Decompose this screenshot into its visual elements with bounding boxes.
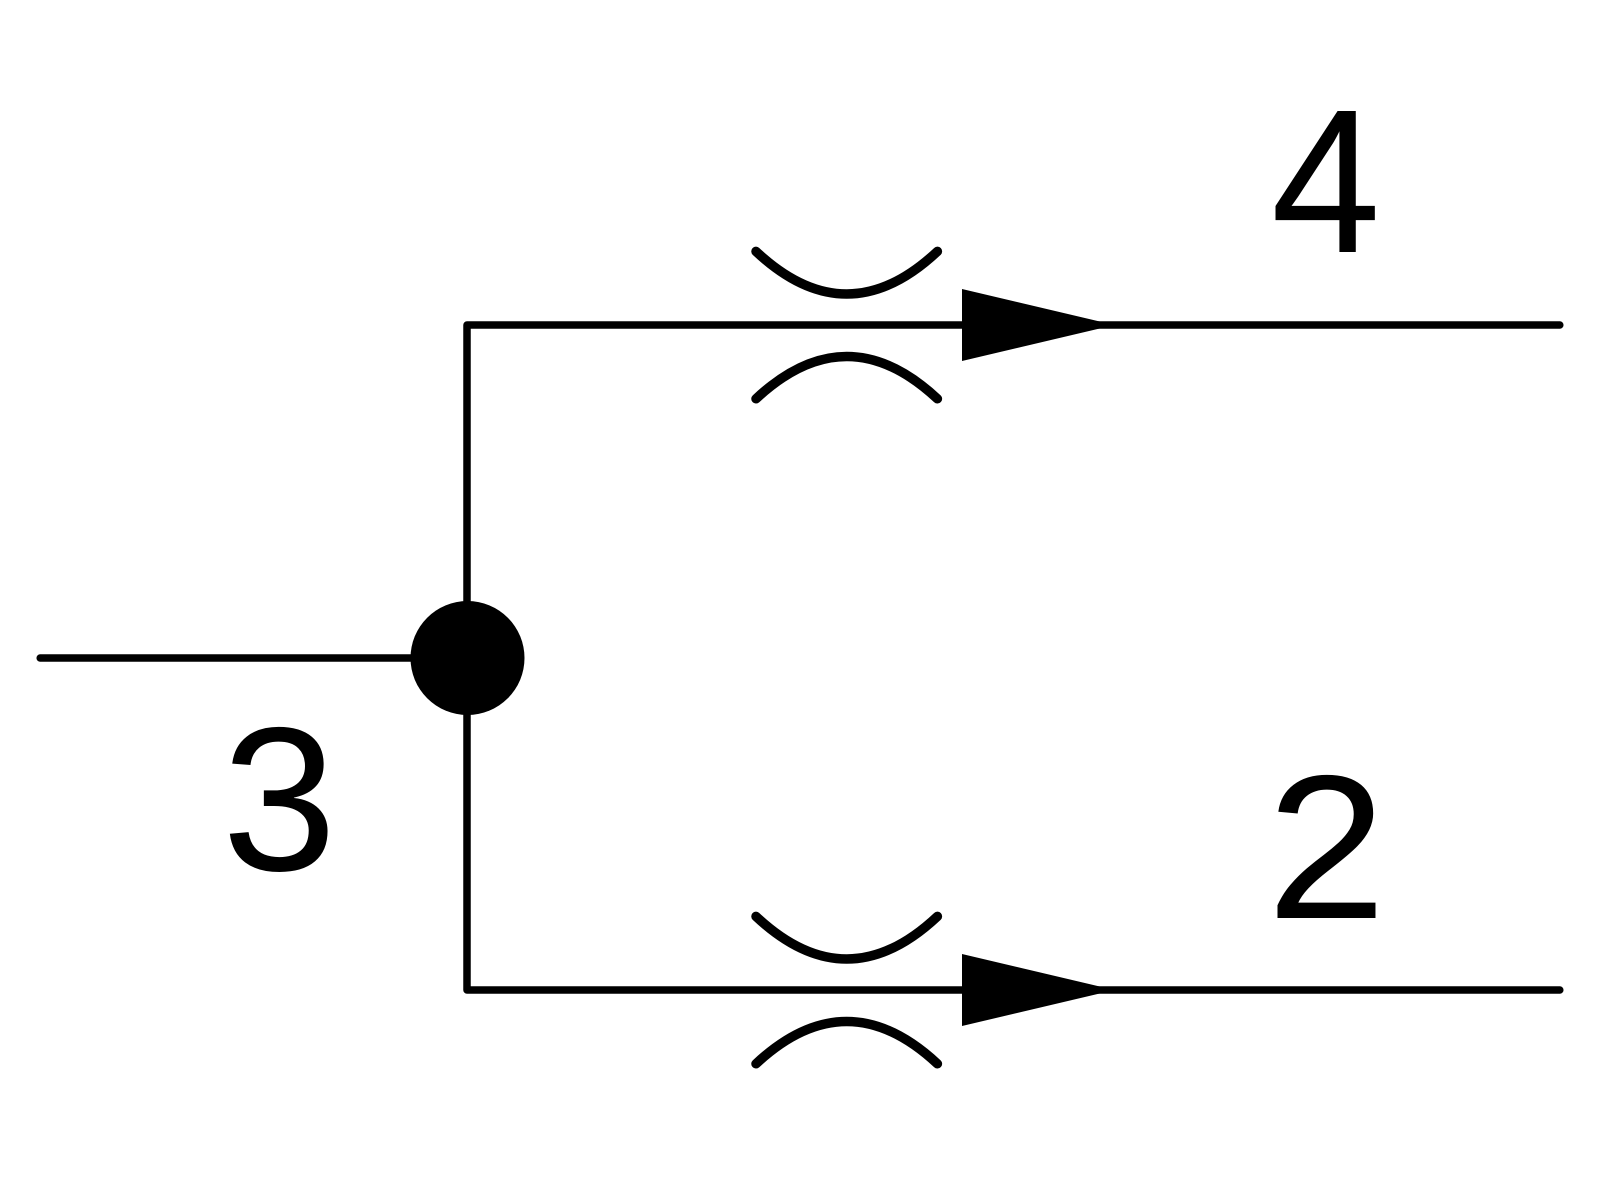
flow arrow (bottom branch, to port 2) (962, 954, 1115, 1026)
wire main path: top branch, vertical riser, bottom branch (467, 325, 1560, 990)
wire port 3 lead (left horizontal) (40, 654, 467, 662)
restriction orifice lower arc (top branch) (756, 357, 937, 399)
svg-text:3: 3 (222, 685, 337, 914)
svg-text:4: 4 (1271, 67, 1381, 296)
flow arrow (top branch, to port 4) (962, 289, 1115, 361)
junction node (port 3 tee) (411, 601, 525, 715)
restriction orifice lower arc (bottom branch) (756, 1022, 937, 1064)
restriction orifice upper arc (top branch) (756, 251, 937, 294)
svg-text:2: 2 (1267, 733, 1387, 962)
restriction orifice upper arc (bottom branch) (756, 916, 937, 959)
